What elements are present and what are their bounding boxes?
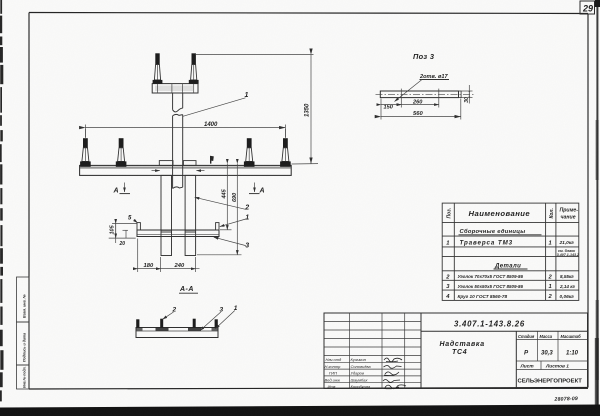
beam bolt 4 bbox=[280, 129, 291, 167]
svg-text:1400: 1400 bbox=[204, 122, 218, 128]
svg-text:Листов 1: Листов 1 bbox=[545, 364, 569, 370]
dim 30 bbox=[462, 90, 473, 92]
svg-text:Уголок 70х70х5 ГОСТ 8509-86: Уголок 70х70х5 ГОСТ 8509-86 bbox=[458, 274, 524, 279]
svg-text:Лист: Лист bbox=[520, 364, 535, 370]
svg-text:Соловьёва: Соловьёва bbox=[351, 364, 372, 369]
legs below beam bbox=[161, 175, 172, 255]
svg-text:1: 1 bbox=[245, 92, 249, 99]
page number box 29 bbox=[580, 1, 595, 14]
svg-text:Приме-: Приме- bbox=[560, 208, 579, 214]
svg-text:690: 690 bbox=[232, 193, 238, 202]
bar bbox=[380, 91, 458, 98]
leaders bbox=[163, 312, 174, 319]
small weld mark bbox=[210, 156, 214, 164]
svg-text:1: 1 bbox=[245, 215, 249, 222]
svg-text:Шаумбах: Шаумбах bbox=[351, 377, 369, 382]
svg-text:Стадия: Стадия bbox=[518, 334, 535, 339]
svg-text:2: 2 bbox=[172, 307, 177, 314]
dim 560 bbox=[380, 108, 382, 120]
svg-text:СЕЛЬЭНЕРГОПРОЕКТ: СЕЛЬЭНЕРГОПРОЕКТ bbox=[518, 378, 583, 384]
svg-text:Кузьмин: Кузьмин bbox=[351, 357, 367, 362]
svg-text:Вед.инж: Вед.инж bbox=[325, 377, 341, 382]
svg-text:1: 1 bbox=[446, 241, 449, 247]
svg-text:3.407.1-143.8.26: 3.407.1-143.8.26 bbox=[454, 320, 525, 329]
svg-text:Коробкова: Коробкова bbox=[351, 384, 371, 389]
svg-text:Надставка: Надставка bbox=[440, 340, 485, 348]
svg-text:Сборочные единицы: Сборочные единицы bbox=[460, 228, 526, 235]
beam bolt 2 bbox=[116, 138, 127, 167]
svg-text:Поз.: Поз. bbox=[447, 208, 453, 219]
svg-text:Взам. инв. №: Взам. инв. № bbox=[23, 294, 27, 318]
svg-text:Кол.: Кол. bbox=[549, 208, 555, 218]
right vertical dims 445 / 690 bbox=[220, 229, 232, 231]
dim 1400 bbox=[84, 125, 86, 138]
svg-text:Наименование: Наименование bbox=[469, 209, 531, 218]
top plate (channel) of traverse head bbox=[152, 84, 198, 93]
svg-text:А-А: А-А bbox=[179, 286, 194, 293]
scan edge left dark blobs bbox=[0, 0, 4, 401]
post lower segment bbox=[172, 116, 174, 189]
svg-text:Подпись и дата: Подпись и дата bbox=[23, 333, 27, 362]
dims 150 / 260 bbox=[380, 99, 382, 108]
small arrows inside beam bbox=[152, 170, 160, 172]
scan edge right dark strip bbox=[596, 0, 598, 406]
svg-text:Нач.отд: Нач.отд bbox=[326, 357, 343, 362]
svg-text:Инж.: Инж. bbox=[328, 384, 337, 389]
drawing frame bbox=[29, 13, 588, 14]
cross bar (надставка) bbox=[137, 230, 219, 237]
leaders 2 / 1 / 3 bbox=[195, 197, 246, 209]
svg-text:Масса: Масса bbox=[540, 334, 553, 339]
svg-text:3: 3 bbox=[245, 243, 249, 250]
leader 1 (to post) bbox=[183, 98, 246, 117]
beam bolt 3 bbox=[244, 138, 255, 167]
svg-text:29: 29 bbox=[582, 4, 593, 14]
svg-text:2,14 кг: 2,14 кг bbox=[559, 284, 576, 289]
signatures bbox=[383, 358, 406, 389]
left margin stamp cells bbox=[17, 277, 30, 389]
centerline bbox=[376, 93, 475, 95]
svg-text:1:10: 1:10 bbox=[566, 351, 579, 357]
svg-text:28078-09: 28078-09 bbox=[553, 396, 578, 403]
svg-text:445: 445 bbox=[222, 188, 228, 199]
svg-text:30,3: 30,3 bbox=[541, 351, 553, 357]
svg-text:А: А bbox=[113, 188, 119, 195]
dim 1350 (vertical right) bbox=[196, 54, 314, 56]
top bolt right bbox=[189, 53, 199, 84]
bar of section bbox=[136, 328, 218, 338]
svg-text:2: 2 bbox=[244, 205, 249, 212]
top bolt left bbox=[153, 53, 163, 84]
svg-text:260: 260 bbox=[412, 99, 423, 105]
bottom dims 180 / 240 bbox=[137, 239, 139, 273]
svg-text:Ударов: Ударов bbox=[351, 371, 364, 376]
svg-text:8,55кг: 8,55кг bbox=[560, 274, 574, 279]
svg-text:Масштаб: Масштаб bbox=[561, 334, 582, 339]
svg-text:3: 3 bbox=[220, 307, 224, 314]
svg-text:ТС4: ТС4 bbox=[452, 349, 467, 356]
svg-text:240: 240 bbox=[174, 263, 185, 269]
left column names bbox=[325, 357, 372, 389]
svg-text:105: 105 bbox=[110, 224, 116, 234]
svg-text:0,06кг: 0,06кг bbox=[560, 294, 575, 300]
svg-text:180: 180 bbox=[144, 263, 154, 269]
svg-text:1: 1 bbox=[549, 241, 552, 247]
left vertical dims 105 / 20 bbox=[112, 223, 137, 225]
svg-text:1: 1 bbox=[549, 284, 552, 290]
svg-text:21,0кг: 21,0кг bbox=[559, 240, 575, 246]
svg-text:ГИП: ГИП bbox=[329, 371, 337, 376]
svg-text:150: 150 bbox=[384, 105, 394, 111]
post (stand pipe) upper segment with break bbox=[172, 93, 174, 110]
svg-text:Траверса ТМ3: Траверса ТМ3 bbox=[460, 240, 514, 247]
svg-text:1350: 1350 bbox=[305, 103, 311, 117]
svg-text:чание: чание bbox=[561, 215, 576, 221]
svg-text:20: 20 bbox=[119, 241, 126, 247]
scan bottom black bar bbox=[0, 405, 600, 416]
dark smudges on bar bbox=[156, 328, 169, 331]
hole marks bbox=[400, 89, 402, 100]
studs bbox=[160, 319, 163, 328]
beam bolt 1 bbox=[80, 129, 91, 167]
beam (traverse channel) bbox=[80, 165, 292, 175]
pads on beam above legs bbox=[159, 161, 173, 166]
svg-text:1: 1 bbox=[234, 305, 238, 312]
svg-text:3.407.1-143.2: 3.407.1-143.2 bbox=[557, 253, 579, 257]
svg-text:Круг 10 ГОСТ 8560-78: Круг 10 ГОСТ 8560-78 bbox=[458, 294, 508, 299]
svg-text:Детали: Детали bbox=[494, 263, 521, 269]
svg-text:Поз 3: Поз 3 bbox=[413, 52, 435, 61]
svg-text:30: 30 bbox=[464, 97, 470, 103]
end tabs bbox=[136, 319, 139, 327]
svg-text:Н.контр: Н.контр bbox=[325, 364, 342, 369]
svg-text:560: 560 bbox=[413, 111, 423, 117]
svg-text:Уголок 50х50х5 ГОСТ 8509-86: Уголок 50х50х5 ГОСТ 8509-86 bbox=[458, 284, 524, 289]
svg-text:Инв.№ подл.: Инв.№ подл. bbox=[23, 366, 27, 388]
